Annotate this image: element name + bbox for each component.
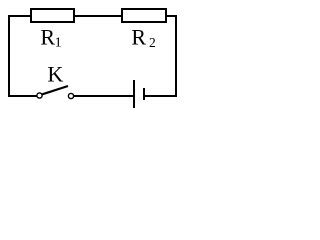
resistor R1 xyxy=(31,9,74,22)
label R1 xyxy=(40,25,61,51)
svg-text:R: R xyxy=(40,25,55,50)
svg-text:R: R xyxy=(131,25,146,50)
svg-text:2: 2 xyxy=(149,35,156,50)
resistor R2 xyxy=(122,9,166,22)
wire top-right horizontal xyxy=(166,15,177,17)
svg-text:1: 1 xyxy=(55,36,62,51)
wire bottom-right horizontal xyxy=(145,95,177,97)
wire right vertical xyxy=(175,15,177,97)
battery B1 xyxy=(134,80,144,108)
wire bottom-left horizontal xyxy=(8,95,37,97)
label R2 xyxy=(131,25,155,51)
wire top-middle horizontal xyxy=(74,15,123,17)
wire bottom-middle horizontal xyxy=(74,95,133,97)
switch K xyxy=(37,86,74,99)
wire left vertical xyxy=(8,15,10,97)
svg-text:K: K xyxy=(47,62,63,87)
wire top-left horizontal xyxy=(8,15,32,17)
